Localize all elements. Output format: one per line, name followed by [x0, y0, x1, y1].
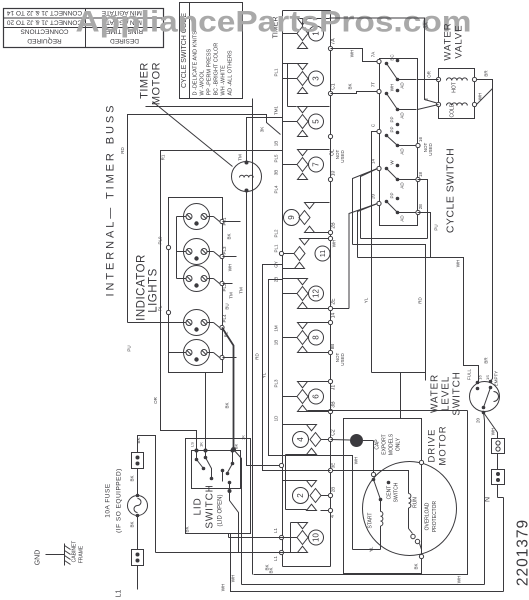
- svg-text:RUN: RUN: [413, 497, 419, 508]
- wire cam9 lower: [315, 222, 337, 235]
- node L1 top: [273, 528, 284, 540]
- wire valve right diagonal: [477, 89, 493, 105]
- svg-text:3: 3: [312, 76, 321, 81]
- svg-text:WATER: WATER: [443, 22, 454, 60]
- wire cam8 lower: [308, 344, 346, 366]
- label GND: [35, 550, 42, 566]
- svg-text:PL1: PL1: [274, 68, 279, 77]
- svg-text:PP: PP: [390, 116, 395, 122]
- label BK motor bottom: [414, 563, 419, 569]
- svg-text:BK: BK: [265, 564, 270, 570]
- svg-text:PL3: PL3: [274, 379, 279, 388]
- svg-text:D -DELICATE AND KNITS: D -DELICATE AND KNITS: [193, 31, 199, 96]
- svg-text:CAP: CAP: [375, 439, 381, 450]
- svg-text:ONLY: ONLY: [396, 437, 402, 451]
- svg-text:LS: LS: [190, 442, 195, 447]
- svg-text:5: 5: [312, 119, 321, 124]
- wire 18 branch: [418, 180, 428, 239]
- svg-text:EMPTY: EMPTY: [494, 371, 499, 387]
- svg-text:7A: 7A: [331, 38, 337, 45]
- label EMPTY: [494, 371, 499, 387]
- svg-text:20: 20: [476, 418, 481, 424]
- timer cam contact 6: [283, 382, 324, 412]
- svg-text:4: 4: [330, 515, 336, 518]
- svg-text:USED: USED: [340, 150, 345, 163]
- svg-text:W -WOOL: W -WOOL: [200, 70, 206, 95]
- svg-text:BC: BC: [390, 54, 395, 61]
- lamp stub wires: [223, 222, 241, 358]
- connector box N1: [492, 439, 505, 454]
- legend entry WH: [221, 65, 227, 96]
- svg-text:TIMER: TIMER: [139, 62, 151, 99]
- label TIMER MOTOR: [139, 62, 163, 105]
- lamp4 leads: [128, 323, 225, 330]
- label L1: [116, 590, 123, 598]
- wire timer 3 to water valve: [330, 18, 439, 104]
- svg-text:WATER: WATER: [430, 374, 441, 413]
- timer cam contact 1: [283, 19, 324, 49]
- svg-text:2E: 2E: [331, 298, 337, 305]
- water valve box: [436, 69, 476, 119]
- connector box F1: [132, 453, 144, 469]
- svg-text:1D: 1D: [274, 415, 279, 422]
- cycle switch terminal 7T: [371, 82, 382, 94]
- table header DESIRED RINSE TIME: [105, 28, 143, 45]
- lamp right label PL2: [222, 283, 227, 292]
- wire: [130, 437, 142, 495]
- timer motor pointer: [153, 102, 233, 167]
- wire label WH: [228, 264, 233, 272]
- svg-text:8: 8: [312, 335, 321, 340]
- svg-text:N: N: [485, 497, 492, 502]
- label IF SO EQUIPPED: [116, 468, 123, 533]
- svg-text:10: 10: [312, 533, 321, 542]
- svg-text:BK: BK: [130, 521, 135, 527]
- svg-text:LEVEL: LEVEL: [441, 376, 452, 411]
- svg-text:WH: WH: [456, 260, 461, 268]
- cycle switch node 18: [416, 172, 423, 182]
- timer cam contact 8: [283, 323, 324, 353]
- legend entry W: [200, 70, 206, 95]
- cycle switch section 2: [385, 84, 417, 119]
- svg-text:FULL: FULL: [467, 369, 472, 381]
- svg-text:WH -WHITE: WH -WHITE: [221, 65, 227, 96]
- water valve label COLD: [450, 103, 456, 117]
- node C2: [328, 429, 336, 442]
- svg-text:CENT: CENT: [387, 486, 393, 500]
- svg-text:RD: RD: [120, 147, 125, 154]
- lamp1 leads: [177, 217, 225, 224]
- svg-text:18: 18: [418, 172, 423, 178]
- terminal 3 label: [330, 11, 336, 14]
- svg-text:SWITCH: SWITCH: [205, 484, 216, 528]
- timer cam contact 5: [283, 107, 324, 137]
- overload protector: [409, 508, 422, 557]
- lamp left terminal PL: [158, 305, 171, 314]
- cycle switch terminal 7A: [371, 52, 382, 64]
- svg-text:OVERLOAD: OVERLOAD: [425, 502, 431, 530]
- label LID SWITCH: [193, 484, 224, 528]
- svg-text:MOTOR: MOTOR: [438, 425, 449, 465]
- trunk 262: [255, 265, 331, 471]
- label CYCLE SWITCH: [445, 148, 457, 233]
- capacitor: [350, 434, 363, 447]
- svg-text:VALVE: VALVE: [454, 24, 465, 58]
- wire cam5 upper: [308, 106, 330, 108]
- indicator lamp 4: [184, 310, 210, 336]
- node 7A: [328, 38, 336, 51]
- lamp3 leads: [177, 279, 225, 286]
- wire WLS bottom left: [476, 413, 485, 585]
- svg-text:YL: YL: [262, 372, 267, 378]
- wire lamp feed: [205, 373, 207, 451]
- svg-text:10: 10: [331, 171, 337, 177]
- wire: [130, 516, 138, 550]
- svg-text:(LID OPEN): (LID OPEN): [218, 494, 224, 526]
- svg-text:16: 16: [418, 137, 423, 143]
- svg-text:C: C: [371, 123, 376, 127]
- svg-text:10A FUSE: 10A FUSE: [105, 483, 112, 518]
- table cell: 1 MIN AGITATE: [101, 19, 147, 26]
- svg-text:EXPORT: EXPORT: [382, 434, 388, 454]
- svg-text:C2: C2: [331, 429, 337, 436]
- lamp right label PL4: [222, 314, 227, 323]
- wire cam4 lower bracket: [286, 455, 307, 510]
- indicator lamp 2: [184, 239, 210, 265]
- svg-text:PROTECTOR: PROTECTOR: [432, 500, 438, 532]
- svg-text:PU: PU: [434, 224, 439, 230]
- svg-text:TM: TM: [239, 287, 244, 294]
- wire Y 410: [308, 410, 468, 412]
- indicator lights box: [169, 198, 223, 373]
- svg-text:PL3: PL3: [222, 246, 227, 255]
- rail 591: [221, 534, 504, 592]
- svg-text:WH: WH: [354, 457, 359, 465]
- lid switch terminals: [195, 449, 235, 453]
- left buss label 1D: [274, 415, 279, 422]
- wire horizontal 257 to water level: [358, 258, 479, 383]
- wire cam6 lower: [308, 401, 337, 414]
- svg-text:4: 4: [296, 437, 305, 442]
- svg-text:L1: L1: [116, 590, 123, 598]
- wire fan 14 b: [353, 169, 378, 245]
- svg-text:1K: 1K: [199, 442, 204, 447]
- svg-text:R1: R1: [161, 154, 166, 160]
- svg-text:DRIVE: DRIVE: [427, 428, 438, 462]
- svg-text:OR: OR: [427, 70, 432, 78]
- svg-text:PL2: PL2: [222, 283, 227, 292]
- left buss label 3B: [274, 170, 279, 176]
- svg-text:AppliancePartsPros.com: AppliancePartsPros.com: [76, 6, 472, 39]
- lid switch outer box: [186, 439, 251, 534]
- svg-text:1B: 1B: [274, 141, 279, 147]
- table cell: CONNECT J1 & J2 TO 14: [7, 9, 83, 16]
- left buss label 1M: [274, 325, 279, 332]
- label TIMER: [273, 17, 280, 39]
- svg-text:WH: WH: [390, 84, 395, 92]
- wire: [497, 454, 499, 470]
- water level switch: [470, 380, 500, 415]
- label CENT SWITCH: [387, 481, 400, 503]
- wire horizontal 244: [353, 245, 426, 381]
- indicator lamp 5: [184, 340, 210, 366]
- svg-text:RD: RD: [418, 297, 423, 304]
- svg-text:1M: 1M: [274, 325, 279, 332]
- left buss label PL2: [274, 229, 279, 238]
- wire lid 552 rail: [156, 552, 298, 554]
- svg-text:3B: 3B: [331, 401, 337, 408]
- svg-text:(IF SO EQUIPPED): (IF SO EQUIPPED): [116, 468, 123, 533]
- timer cam contact 3: [283, 64, 324, 94]
- timer outline: [283, 11, 331, 567]
- label CAP EXPORT MODELS ONLY: [375, 433, 402, 455]
- motor start switch: [372, 478, 383, 502]
- wire cam4 upper: [283, 424, 307, 426]
- svg-text:W: W: [390, 160, 395, 165]
- wire cam11 upper: [310, 236, 337, 247]
- wire cap feed: [331, 440, 374, 473]
- lid switch internals: [195, 451, 235, 494]
- svg-text:CONNECT J1 & J2 TO 14: CONNECT J1 & J2 TO 14: [7, 9, 83, 16]
- timer cam contact 9: [284, 203, 315, 233]
- left buss label PL1: [274, 244, 279, 253]
- lamp5 leads: [169, 353, 225, 360]
- connector box N2: [492, 470, 505, 485]
- svg-text:8B: 8B: [330, 344, 335, 350]
- cycle switch section 4: [385, 160, 417, 189]
- svg-text:PL2: PL2: [274, 229, 279, 238]
- label TM: [238, 154, 243, 161]
- wire horizontal 372: [372, 372, 426, 374]
- wire cam12 lower: [308, 298, 350, 311]
- wire cam1 upper to terminal 3: [303, 19, 330, 27]
- svg-text:WH: WH: [350, 50, 355, 58]
- svg-text:PP -PERM PRESS: PP -PERM PRESS: [207, 49, 213, 96]
- wire cam6 upper: [308, 379, 337, 390]
- indicator lamp 1: [184, 204, 210, 230]
- svg-text:BK: BK: [130, 475, 135, 481]
- svg-text:BK: BK: [225, 402, 230, 408]
- wire legend trunk: [146, 106, 253, 108]
- legend entry PP: [207, 49, 213, 96]
- label N: [485, 497, 492, 502]
- svg-text:TM: TM: [238, 154, 243, 161]
- legend title CYCLE SWITCH CODE: [181, 13, 188, 88]
- node OL: [328, 134, 345, 162]
- svg-text:1B: 1B: [274, 340, 279, 346]
- wire 7A: [331, 49, 378, 62]
- svg-text:3A: 3A: [424, 22, 430, 29]
- svg-text:RD: RD: [255, 353, 260, 360]
- label INTERNAL TIMER BUSS: [105, 105, 117, 297]
- label BK below strip: [269, 567, 274, 573]
- svg-text:9: 9: [287, 215, 296, 220]
- wire cam7 upper: [308, 149, 330, 151]
- svg-text:USED: USED: [340, 353, 345, 366]
- wire OR: [153, 151, 283, 451]
- svg-text:PL4: PL4: [222, 314, 227, 323]
- wire lid 537: [229, 534, 298, 538]
- svg-text:C1: C1: [331, 83, 337, 90]
- left buss label 1B: [274, 141, 279, 147]
- left buss label PL3: [274, 379, 279, 388]
- wire start bottom: [353, 546, 381, 552]
- svg-text:INTERNAL— TIMER BUSS: INTERNAL— TIMER BUSS: [105, 105, 117, 297]
- label 10A FUSE: [105, 483, 112, 518]
- left buss label PL4: [274, 185, 279, 194]
- cycle switch node 2E: [416, 204, 423, 215]
- wire cam3 upper: [283, 64, 303, 107]
- wire cam11 lower: [283, 268, 295, 270]
- label OVERLOAD PROTECTOR: [425, 500, 439, 532]
- svg-text:WH: WH: [221, 584, 226, 592]
- svg-text:CYCLE SWITCH: CYCLE SWITCH: [445, 148, 457, 233]
- bold wire branch: [234, 450, 242, 585]
- svg-text:WH: WH: [478, 93, 483, 101]
- cycle switch section2 extra PP dot: [390, 116, 400, 126]
- svg-text:TM: TM: [229, 292, 234, 299]
- svg-text:WH: WH: [228, 264, 233, 272]
- svg-text:PP: PP: [390, 126, 395, 132]
- cycle switch terminal 20: [371, 194, 382, 206]
- label CABINET FRAME: [72, 541, 85, 564]
- svg-text:J1: J1: [331, 385, 337, 391]
- svg-text:AD: AD: [400, 215, 405, 222]
- cycle switch node 16 NOT USED: [416, 137, 433, 156]
- svg-text:2: 2: [296, 493, 305, 498]
- svg-text:CONNECTIONS: CONNECTIONS: [20, 28, 69, 35]
- timer cam contact 11: [283, 239, 331, 269]
- svg-text:AD: AD: [400, 82, 405, 89]
- wire label TM: [229, 292, 234, 299]
- wire PU: [418, 213, 439, 258]
- svg-text:7T: 7T: [371, 82, 376, 88]
- lid switch terminal labels: [190, 442, 239, 449]
- svg-text:LID: LID: [193, 498, 204, 516]
- wire valve right BR: [477, 70, 493, 382]
- svg-text:OR: OR: [153, 396, 158, 404]
- timer motor circle: [232, 161, 262, 193]
- svg-text:L1: L1: [273, 528, 278, 534]
- lid switch inner box: [192, 451, 241, 489]
- legend entry BC: [214, 43, 220, 96]
- svg-text:CONNECT J1 & J2 TO 20: CONNECT J1 & J2 TO 20: [7, 19, 83, 26]
- label BK lid: [185, 526, 190, 532]
- wire label BL: [224, 331, 229, 337]
- wire motor feed 400: [400, 373, 402, 419]
- bold wire BK: [222, 328, 246, 453]
- svg-text:SWITCH: SWITCH: [394, 482, 400, 502]
- left buss label 2B: [274, 277, 279, 283]
- left buss label TM1: [274, 106, 279, 115]
- svg-text:BK: BK: [185, 526, 190, 532]
- wire fan 14 a: [361, 169, 378, 239]
- rail 574: [254, 411, 468, 575]
- drive motor circle: [363, 462, 457, 556]
- node 10: [328, 171, 336, 182]
- svg-text:BK: BK: [414, 563, 419, 569]
- start winding: [368, 500, 383, 550]
- watermark AppliancePartsPros.com: [76, 6, 472, 39]
- timer cam contact 7: [283, 150, 324, 180]
- label INDICATOR LIGHTS: [136, 254, 160, 321]
- lamp right label PL3: [222, 246, 227, 255]
- svg-text:AD: AD: [400, 112, 405, 119]
- label WATER VALVE: [443, 22, 465, 60]
- svg-text:2E: 2E: [418, 204, 423, 210]
- svg-text:PP: PP: [390, 192, 395, 198]
- drive motor box: [344, 419, 422, 574]
- node C1: [328, 83, 336, 96]
- table cell: CONNECT J1 & J2 TO 20: [7, 19, 83, 26]
- svg-text:WH: WH: [231, 575, 236, 583]
- wire cam2 lower: [286, 508, 337, 517]
- wire lid bottom right: [230, 492, 239, 553]
- cycle switch section 5: [385, 192, 417, 221]
- connection table frame: [4, 9, 164, 48]
- wire fan 20 b: [349, 204, 378, 309]
- wire OR to valve: [418, 70, 439, 79]
- svg-text:2201379: 2201379: [515, 519, 529, 586]
- svg-text:14: 14: [331, 313, 337, 319]
- indicator lamp 3: [184, 266, 210, 292]
- cycle switch box: [380, 59, 418, 226]
- svg-text:HOT: HOT: [452, 82, 458, 93]
- label FULL: [467, 369, 472, 381]
- wire cam8 upper: [308, 313, 337, 325]
- legend entry AD: [228, 50, 234, 95]
- svg-text:3K: 3K: [260, 127, 265, 133]
- fuse: [128, 494, 148, 518]
- svg-text:PL4: PL4: [274, 185, 279, 194]
- timer motor coil: [240, 175, 254, 177]
- svg-text:7A: 7A: [371, 52, 376, 58]
- svg-text:BK: BK: [136, 437, 141, 443]
- svg-text:3B: 3B: [274, 170, 279, 176]
- rail 584: [231, 575, 485, 585]
- svg-text:START: START: [368, 513, 374, 529]
- wire 7T: [331, 83, 378, 93]
- ground wire: [46, 554, 65, 556]
- svg-text:PU: PU: [127, 345, 132, 351]
- timer cam contact 4: [293, 425, 331, 455]
- cabinet ground symbol: [65, 544, 71, 566]
- left buss label PL5: [274, 154, 279, 163]
- svg-text:L1: L1: [273, 556, 278, 562]
- svg-text:MOTOR: MOTOR: [151, 62, 163, 105]
- left buss label GY: [274, 261, 279, 268]
- water valve label HOT: [452, 82, 458, 93]
- svg-text:YL: YL: [369, 546, 374, 552]
- node PL1 on left buss: [279, 251, 283, 255]
- legend entry D: [193, 31, 199, 96]
- svg-text:2B: 2B: [331, 487, 336, 493]
- node L1 bottom: [273, 550, 284, 561]
- lamp2 leads: [177, 252, 225, 259]
- wire horizontal 238: [361, 238, 428, 240]
- svg-text:1S: 1S: [485, 375, 490, 380]
- svg-text:GND: GND: [35, 550, 42, 566]
- svg-text:FRAME: FRAME: [79, 545, 85, 563]
- svg-text:WH: WH: [457, 576, 462, 584]
- wire TM trunk: [239, 191, 284, 468]
- svg-text:2B: 2B: [331, 222, 337, 229]
- fuse wire top: [138, 436, 156, 553]
- timer cam contact 2: [293, 481, 331, 511]
- wire RD: [120, 115, 281, 323]
- wire L1: [137, 566, 139, 590]
- motor start terminal: [371, 472, 375, 476]
